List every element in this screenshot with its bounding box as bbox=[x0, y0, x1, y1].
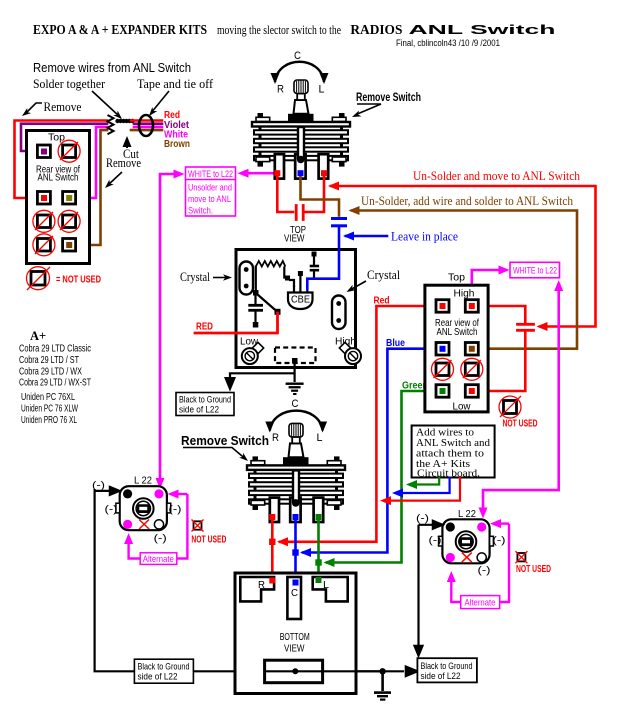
node: red stub end in R contact bbox=[269, 577, 275, 583]
callout box: Alternate (left) bbox=[140, 553, 177, 565]
transistor Q1 (CBE) bbox=[288, 293, 313, 310]
svg-text:Uniden PC 76 XLW: Uniden PC 76 XLW bbox=[21, 404, 78, 415]
svg-text:Switch.: Switch. bbox=[188, 206, 213, 217]
svg-text:Cobra 29 LTD / WX: Cobra 29 LTD / WX bbox=[19, 366, 82, 377]
wire: magenta from top switch left terminal with arrow into box right side bbox=[247, 172, 277, 175]
svg-text:(-): (-) bbox=[478, 565, 491, 577]
wire: red from S1 left terminal through capacitor to right terminal bbox=[277, 175, 293, 212]
wire: black from left L22 to lug bbox=[95, 489, 256, 671]
capacitor C3 (black, left) bbox=[254, 295, 256, 304]
wire: white stub through tape ring bbox=[134, 126, 162, 129]
svg-text:WHITE to L22: WHITE to L22 bbox=[188, 169, 233, 180]
wire: magenta arrow into left L22 top-right pin bbox=[172, 493, 187, 495]
svg-text:Alternate: Alternate bbox=[465, 598, 496, 609]
pin A7 (left ANL row4 left, not used) bbox=[37, 239, 50, 252]
svg-text:Crystal: Crystal bbox=[367, 267, 400, 282]
crystal Y1 (left) bbox=[240, 262, 254, 295]
wire: magenta from row1-right pin up to WHITE to L22 bbox=[472, 270, 501, 300]
svg-text:CBE: CBE bbox=[291, 295, 310, 306]
callout box: WHITE to L22 Unsolder and move to ANL Switch bbox=[186, 167, 236, 216]
arc arrow C-R-L (lower) bbox=[270, 411, 323, 431]
svg-text:Remove wires from ANL Switch: Remove wires from ANL Switch bbox=[33, 61, 191, 75]
pin B3 (row2 left) bbox=[436, 343, 449, 356]
wire: long magenta to right L22 bbox=[483, 290, 559, 508]
svg-text:NOT USED: NOT USED bbox=[503, 418, 538, 430]
wire: alternate loop (left) bbox=[177, 494, 187, 559]
svg-text:ANL Switch: ANL Switch bbox=[409, 22, 556, 37]
svg-text:Brown: Brown bbox=[164, 138, 190, 150]
callout box: Black to Ground side of L22 (bottom left) bbox=[134, 659, 193, 683]
svg-text:Low: Low bbox=[453, 401, 471, 413]
pin B8 (row4 right) bbox=[465, 385, 478, 398]
svg-text:(-): (-) bbox=[429, 535, 442, 547]
svg-text:L: L bbox=[317, 432, 323, 444]
rotary switch S2 (top view, lower) bbox=[247, 423, 345, 522]
bottom view box bbox=[235, 573, 356, 694]
svg-text:EXPO A & A + EXPANDER KITS: EXPO A & A + EXPANDER KITS bbox=[33, 22, 207, 37]
wire: black from right L22 down to ground callout bbox=[417, 525, 419, 647]
svg-text:RED: RED bbox=[196, 321, 213, 333]
pin A2 (left ANL row1 right, not used) bbox=[63, 145, 76, 158]
svg-text:(-): (-) bbox=[154, 533, 167, 545]
wire: long magenta down to left L22 bbox=[159, 175, 162, 479]
wire: green arrow from callout to green wire bbox=[412, 478, 439, 485]
svg-text:L: L bbox=[319, 84, 325, 96]
node: blue stub end in C contact (over) bbox=[293, 580, 299, 586]
wire: magenta arrow into WHITE to L22 box (left side) bbox=[159, 173, 180, 176]
svg-text:L: L bbox=[323, 580, 329, 591]
left ANL switch body bbox=[27, 131, 90, 264]
svg-text:Uniden PC 76XL: Uniden PC 76XL bbox=[21, 392, 75, 403]
node: junction square bbox=[253, 290, 259, 296]
svg-text:Blue: Blue bbox=[386, 337, 405, 349]
svg-text:Top: Top bbox=[448, 272, 465, 284]
svg-text:(-): (-) bbox=[493, 535, 506, 547]
svg-text:Cobra 29 LTD / WX-ST: Cobra 29 LTD / WX-ST bbox=[19, 378, 91, 389]
svg-text:NOT USED: NOT USED bbox=[191, 534, 226, 546]
svg-text:Red: Red bbox=[374, 295, 390, 307]
svg-text:High: High bbox=[454, 288, 475, 300]
wire: diagonal rotor wire bbox=[256, 293, 277, 312]
crystal Y2 (right) bbox=[332, 296, 346, 330]
svg-text:Cobra 29 LTD Classic: Cobra 29 LTD Classic bbox=[19, 344, 91, 355]
wire: green from S2 right terminal down to bottom view L bbox=[317, 518, 320, 578]
pin A4 (left ANL row2 right) bbox=[63, 192, 76, 205]
tape ring bbox=[139, 115, 153, 136]
pin B7 (row4 left) bbox=[436, 385, 449, 398]
wire: red arrow from callout to red wire bbox=[384, 478, 460, 501]
arrow: Remove pointer to brown wire bbox=[108, 172, 122, 185]
svg-text:side of L22: side of L22 bbox=[138, 672, 178, 683]
wire: red stub through tape ring bbox=[131, 119, 162, 122]
svg-text:C: C bbox=[294, 50, 301, 62]
callout box: Black to Ground side of L22 (mid) bbox=[176, 393, 234, 416]
svg-text:Un-Solder, add wire and solder: Un-Solder, add wire and solder to ANL Sw… bbox=[361, 194, 574, 208]
svg-text:C: C bbox=[292, 398, 299, 410]
node: red stub end in R contact (over) bbox=[269, 578, 275, 584]
callout box: Alternate (right) bbox=[461, 596, 500, 609]
svg-text:Unsolder and: Unsolder and bbox=[188, 183, 232, 194]
svg-text:ANL Switch: ANL Switch bbox=[437, 326, 478, 338]
svg-text:L 22: L 22 bbox=[458, 508, 476, 520]
capacitor C2 (black, top) bbox=[312, 252, 317, 257]
wire: long brown Un-Solder, add wire and solder to ANL Switch bbox=[352, 211, 577, 349]
node: S2 left terminal red bbox=[269, 514, 275, 520]
svg-text:Remove: Remove bbox=[44, 99, 82, 114]
pin A6 (left ANL row3 right, not used) bbox=[63, 215, 76, 228]
node: green junction bbox=[315, 559, 321, 565]
solder twist dots bbox=[115, 119, 134, 123]
callout box: Black to Ground side of L22 (bottom right) bbox=[417, 658, 477, 682]
wire: blue from capacitor into board bbox=[338, 226, 341, 249]
contact C bbox=[287, 577, 301, 619]
wire: red from left ANL pin to cut bundle bbox=[15, 121, 108, 199]
wire: red into board to rotor node bbox=[195, 313, 278, 333]
svg-text:(-): (-) bbox=[416, 513, 429, 525]
wire: white/magenta from left ANL pin to cut bundle bbox=[69, 127, 107, 198]
wire: blue inside board to E lead bbox=[307, 249, 339, 290]
node: red junction bbox=[269, 539, 275, 545]
node: green stub end in L contact (over) bbox=[316, 577, 322, 583]
svg-text:move to ANL: move to ANL bbox=[188, 194, 231, 205]
pin: E lead bbox=[306, 285, 308, 293]
arrow: Solder together pointer bbox=[92, 91, 119, 116]
svg-text:RADIOS: RADIOS bbox=[350, 22, 402, 37]
pin B4 (row2 right) bbox=[465, 343, 478, 356]
svg-text:BOTTOM: BOTTOM bbox=[280, 631, 310, 643]
wire: brown from S1 center terminal bbox=[301, 175, 340, 216]
svg-text:R: R bbox=[272, 432, 279, 444]
node: blue stub end in C contact bbox=[293, 580, 299, 586]
ground symbol (board) bbox=[286, 383, 304, 396]
arrow: Cut pointer up bbox=[126, 140, 128, 148]
wire: red loop row1-right to row4-right through capacitor bbox=[472, 306, 526, 322]
ground junction node bbox=[379, 668, 385, 674]
inductor L22 (right) bbox=[439, 519, 494, 563]
circuit board (top view) bbox=[236, 250, 356, 368]
svg-text:VIEW: VIEW bbox=[284, 233, 305, 245]
wire: long red Un-Solder and move to ANL Switch bbox=[331, 186, 596, 327]
pin B1 (row1 left) bbox=[436, 300, 449, 313]
arrow: Remove pointer bbox=[25, 103, 42, 114]
svg-text:R: R bbox=[277, 84, 284, 96]
pin: B lead with head bbox=[299, 275, 301, 293]
wire: violet stub through tape ring bbox=[134, 122, 162, 125]
svg-text:(-): (-) bbox=[92, 480, 105, 492]
svg-text:Final, cblincoln43 /10 /9 /200: Final, cblincoln43 /10 /9 /2001 bbox=[396, 38, 500, 48]
svg-text:Crystal: Crystal bbox=[180, 269, 210, 284]
svg-text:Remove Switch: Remove Switch bbox=[181, 434, 269, 448]
wire: brown from left ANL pin to cut bundle bbox=[69, 130, 107, 245]
svg-text:(-): (-) bbox=[105, 504, 118, 516]
svg-text:A+: A+ bbox=[30, 329, 46, 343]
pin A1 (left ANL row1 left) bbox=[37, 145, 50, 158]
pin A3 (left ANL row2 left) bbox=[37, 192, 50, 205]
svg-text:Solder together: Solder together bbox=[33, 76, 106, 91]
arrow: remove switch pointer (upper) bbox=[355, 104, 381, 115]
svg-text:Tape and tie off: Tape and tie off bbox=[137, 76, 214, 91]
legend: not used pin bbox=[31, 272, 45, 286]
pin B5 (row3 left, not used) bbox=[436, 363, 449, 376]
svg-text:VIEW: VIEW bbox=[284, 643, 305, 655]
inductor L22 (left) bbox=[116, 486, 171, 530]
contact R bbox=[240, 577, 274, 601]
pin B6 (row3 right, not used) bbox=[465, 363, 478, 376]
wire: blue to bottom switch (Blue) bbox=[303, 349, 440, 553]
legend: not used pin (right ANL) bbox=[504, 401, 517, 414]
svg-text:L 22: L 22 bbox=[134, 475, 152, 487]
wire: blue arrow from callout to blue wire bbox=[396, 478, 450, 493]
svg-text:Cobra 29 LTD / ST: Cobra 29 LTD / ST bbox=[19, 355, 79, 366]
wire: red to bottom switch (Red) bbox=[280, 306, 440, 542]
node: S1 left terminal red bbox=[274, 170, 280, 176]
svg-text:Remove Switch: Remove Switch bbox=[356, 92, 421, 104]
contact L bbox=[313, 577, 348, 601]
cut mark squiggle bbox=[108, 115, 114, 134]
wire: green to bottom switch (Green) bbox=[327, 391, 440, 563]
wire: violet from left ANL pin to cut bundle bbox=[21, 124, 107, 151]
wire: magenta arrow into right L22 top-right pin bbox=[494, 522, 509, 524]
wire: through lug with center dot bbox=[265, 670, 383, 672]
arrow: Tape and tie off pointer bbox=[151, 91, 169, 113]
svg-text:ANL Switch: ANL Switch bbox=[38, 172, 79, 184]
rotary switch S1 (top view, upper) bbox=[252, 80, 350, 179]
wire: coil right leg to transistor C lead bbox=[284, 267, 287, 278]
svg-text:moving the slector switch to t: moving the slector switch to the bbox=[217, 23, 341, 37]
not used marker (left L22) bbox=[192, 520, 204, 532]
capacitor (red, between S1 terminals) bbox=[295, 206, 298, 220]
solder lug bbox=[265, 660, 323, 683]
pin A8 (left ANL row4 right) bbox=[63, 239, 76, 252]
node: blue junction bbox=[292, 549, 298, 555]
wire: red from S2 left terminal down to bottom view R bbox=[271, 518, 274, 579]
inductor coil bbox=[256, 261, 285, 267]
svg-text:side of L22: side of L22 bbox=[179, 405, 219, 416]
pin A5 (left ANL row3 left, not used) bbox=[37, 215, 50, 228]
wire: black to ground-callout arrow bbox=[230, 373, 295, 379]
node: green stub end in L contact bbox=[316, 577, 322, 583]
pin: C lead bbox=[293, 286, 295, 293]
capacitor C4 (red) bbox=[518, 323, 534, 326]
callout box: Add wires to ANL Switch... bbox=[412, 426, 495, 478]
svg-text:Leave in place: Leave in place bbox=[391, 230, 458, 244]
node: S1 center terminal blue bbox=[298, 170, 304, 176]
node: S2 center terminal blue bbox=[293, 514, 299, 520]
wire: blue arrow Leave in place bbox=[346, 235, 387, 238]
svg-text:NOT USED: NOT USED bbox=[516, 563, 551, 575]
svg-text:Un-Solder and move to ANL Swit: Un-Solder and move to ANL Switch bbox=[413, 169, 581, 183]
wire: alternate loop (right) bbox=[500, 524, 509, 602]
arc arrow C-R-L (upper) bbox=[275, 62, 324, 82]
wire: ground lead from dashed box bbox=[294, 361, 296, 382]
not used marker (right L22) bbox=[515, 551, 527, 563]
pin B2 (row1 right) bbox=[465, 300, 478, 313]
arrow: black into left L22 top-left pin bbox=[95, 490, 114, 492]
svg-text:side of L22: side of L22 bbox=[421, 671, 461, 682]
node: S2 right terminal green bbox=[316, 514, 322, 520]
right ANL switch body bbox=[425, 285, 488, 412]
svg-text:R: R bbox=[258, 580, 265, 591]
svg-text:= NOT USED: = NOT USED bbox=[56, 274, 101, 286]
capacitor (blue, leave in place) bbox=[333, 217, 346, 220]
ground symbol (bottom) bbox=[381, 671, 384, 691]
node: S1 right terminal red bbox=[321, 170, 327, 176]
svg-text:(-): (-) bbox=[169, 504, 182, 516]
arrow: black into right L22 top-left pin bbox=[419, 524, 438, 526]
wire: black lug through-wire to right callout bbox=[264, 670, 404, 672]
callout box: WHITE to L22 (right) bbox=[510, 262, 560, 278]
wire: coil left leg down to junction bbox=[255, 266, 257, 293]
svg-text:WHITE to L22: WHITE to L22 bbox=[513, 266, 557, 277]
svg-text:Alternate: Alternate bbox=[143, 554, 174, 565]
dashed component outline bbox=[275, 348, 316, 364]
wire: blue from S2 center terminal down to bottom view C bbox=[294, 518, 297, 581]
svg-text:Uniden PRO 76 XL: Uniden PRO 76 XL bbox=[21, 415, 77, 426]
svg-text:Remove: Remove bbox=[106, 155, 141, 170]
arrow: remove switch pointer (lower) bbox=[183, 448, 245, 459]
wire: brown stub through tape ring bbox=[131, 129, 162, 132]
svg-text:C: C bbox=[291, 588, 298, 599]
